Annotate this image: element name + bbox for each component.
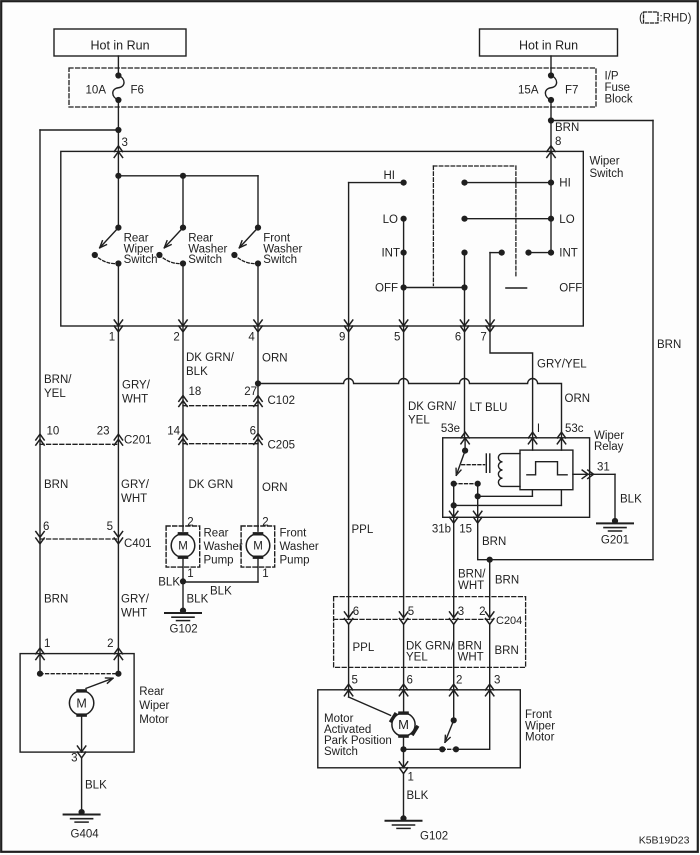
svg-text:DK GRN/: DK GRN/ [186, 352, 235, 364]
svg-text:G102: G102 [170, 624, 198, 636]
svg-text:ORN: ORN [565, 393, 591, 405]
svg-text:BLK: BLK [158, 577, 180, 589]
svg-text:Block: Block [605, 94, 633, 106]
svg-text:Rear: Rear [204, 528, 229, 540]
svg-text:53c: 53c [565, 423, 584, 435]
svg-text:PPL: PPL [352, 524, 374, 536]
svg-text:M: M [253, 541, 263, 553]
svg-text:Pump: Pump [280, 555, 310, 567]
svg-text:3: 3 [122, 137, 128, 149]
svg-text:OFF: OFF [559, 283, 582, 295]
svg-text:14: 14 [167, 426, 180, 438]
svg-text:31b: 31b [432, 523, 451, 535]
svg-text:1: 1 [262, 568, 268, 580]
svg-text:M: M [398, 717, 409, 732]
svg-text:LT BLU: LT BLU [470, 402, 508, 414]
svg-text:3: 3 [458, 606, 464, 618]
svg-text:3: 3 [71, 753, 77, 765]
svg-text:Fuse: Fuse [605, 82, 631, 94]
svg-text:HI: HI [559, 178, 571, 190]
svg-text:BLK: BLK [85, 780, 107, 792]
svg-text:BLK: BLK [187, 594, 209, 606]
svg-text:BLK: BLK [186, 366, 208, 378]
svg-text:Pump: Pump [204, 555, 234, 567]
svg-text:WHT: WHT [122, 394, 148, 406]
svg-text:31: 31 [597, 462, 610, 474]
svg-text:2: 2 [187, 517, 193, 529]
svg-text:BRN/: BRN/ [458, 569, 486, 581]
svg-text:Hot in Run: Hot in Run [90, 38, 149, 52]
svg-text:BRN: BRN [44, 594, 68, 606]
svg-text:GRY/: GRY/ [121, 479, 150, 491]
svg-text:DK GRN/: DK GRN/ [408, 401, 457, 413]
svg-text:BRN: BRN [657, 339, 681, 351]
svg-text:27: 27 [244, 386, 257, 398]
svg-text:PPL: PPL [353, 642, 375, 654]
svg-text:ORN: ORN [262, 482, 288, 494]
svg-text:8: 8 [555, 136, 561, 148]
svg-text:1: 1 [44, 638, 50, 650]
svg-text:INT: INT [559, 248, 578, 260]
svg-text:Relay: Relay [594, 441, 624, 453]
svg-text:C201: C201 [124, 435, 152, 447]
svg-text:C102: C102 [268, 395, 296, 407]
svg-text:BRN: BRN [44, 479, 68, 491]
svg-text:BRN: BRN [495, 645, 519, 657]
svg-text:10A: 10A [86, 85, 107, 97]
svg-text:C205: C205 [268, 440, 296, 452]
svg-text:HI: HI [384, 170, 396, 182]
svg-text:1: 1 [109, 332, 115, 344]
svg-text:Switch: Switch [324, 746, 358, 758]
svg-text:BLK: BLK [210, 586, 232, 598]
svg-text:Front: Front [525, 709, 553, 721]
svg-text:BLK: BLK [620, 494, 642, 506]
svg-text:2: 2 [107, 638, 113, 650]
svg-text:M: M [178, 541, 188, 553]
svg-text:6: 6 [250, 426, 256, 438]
svg-text:6: 6 [455, 332, 461, 344]
svg-text:Wiper: Wiper [139, 700, 169, 712]
svg-text:YEL: YEL [408, 415, 430, 427]
svg-text:G404: G404 [71, 829, 100, 841]
svg-text:I: I [537, 423, 540, 435]
svg-text:WHT: WHT [458, 580, 484, 592]
svg-text:Hot in Run: Hot in Run [519, 38, 578, 52]
svg-text:5: 5 [107, 521, 113, 533]
svg-text:BRN/: BRN/ [44, 374, 72, 386]
svg-text:2: 2 [173, 332, 179, 344]
svg-text:LO: LO [383, 214, 398, 226]
svg-text:4: 4 [248, 332, 255, 344]
svg-text:Switch: Switch [124, 254, 158, 266]
svg-text:G201: G201 [601, 535, 629, 547]
svg-text:M: M [76, 696, 86, 710]
svg-text:Motor: Motor [525, 732, 555, 744]
svg-text:K5B19D23: K5B19D23 [639, 834, 690, 846]
svg-text:Switch: Switch [188, 254, 222, 266]
svg-text:YEL: YEL [44, 388, 66, 400]
svg-text:7: 7 [480, 332, 486, 344]
svg-text:ORN: ORN [262, 353, 288, 365]
svg-text:BRN: BRN [555, 122, 579, 134]
svg-text:10: 10 [47, 426, 60, 438]
svg-text:Washer: Washer [280, 541, 319, 553]
svg-text:15A: 15A [518, 85, 539, 97]
svg-text:Motor: Motor [139, 714, 169, 726]
svg-text:5: 5 [394, 332, 400, 344]
svg-text:Switch: Switch [263, 254, 297, 266]
svg-text:2: 2 [456, 675, 462, 687]
svg-text:Washer: Washer [204, 541, 243, 553]
svg-text:F6: F6 [131, 85, 144, 97]
svg-text:GRY/: GRY/ [121, 594, 150, 606]
svg-text:5: 5 [352, 675, 358, 687]
svg-text:23: 23 [97, 426, 110, 438]
svg-text:Switch: Switch [590, 168, 624, 180]
svg-text:9: 9 [339, 332, 345, 344]
svg-text:3: 3 [494, 675, 500, 687]
svg-text:C204: C204 [496, 615, 522, 627]
svg-text:6: 6 [407, 675, 413, 687]
svg-text:G102: G102 [420, 831, 448, 843]
svg-text::RHD): :RHD) [660, 13, 692, 25]
svg-text:WHT: WHT [121, 608, 147, 620]
svg-text:(: ( [639, 13, 643, 25]
svg-text:Front: Front [280, 528, 308, 540]
svg-text:Wiper: Wiper [525, 720, 555, 732]
svg-text:2: 2 [479, 606, 485, 618]
svg-text:WHT: WHT [121, 493, 147, 505]
svg-text:2: 2 [262, 517, 268, 529]
svg-text:YEL: YEL [406, 652, 428, 664]
svg-text:INT: INT [381, 248, 400, 260]
svg-text:Wiper: Wiper [590, 156, 620, 168]
svg-text:LO: LO [559, 214, 574, 226]
svg-text:OFF: OFF [375, 283, 398, 295]
svg-text:F7: F7 [565, 85, 578, 97]
svg-text:BRN: BRN [495, 575, 519, 587]
svg-text:DK GRN: DK GRN [189, 479, 234, 491]
svg-text:C401: C401 [124, 538, 152, 550]
svg-text:15: 15 [459, 523, 472, 535]
svg-text:GRY/: GRY/ [122, 380, 151, 392]
svg-text:WHT: WHT [458, 652, 484, 664]
svg-text:1: 1 [408, 772, 414, 784]
svg-text:1: 1 [187, 568, 193, 580]
svg-text:53e: 53e [441, 423, 460, 435]
svg-text:BLK: BLK [407, 790, 429, 802]
svg-text:GRY/YEL: GRY/YEL [537, 359, 587, 371]
svg-text:Motor: Motor [324, 713, 354, 725]
svg-text:I/P: I/P [605, 71, 619, 83]
svg-text:6: 6 [353, 606, 359, 618]
svg-text:BRN: BRN [482, 536, 506, 548]
svg-text:Rear: Rear [139, 686, 164, 698]
svg-text:5: 5 [408, 606, 414, 618]
svg-text:18: 18 [189, 386, 202, 398]
